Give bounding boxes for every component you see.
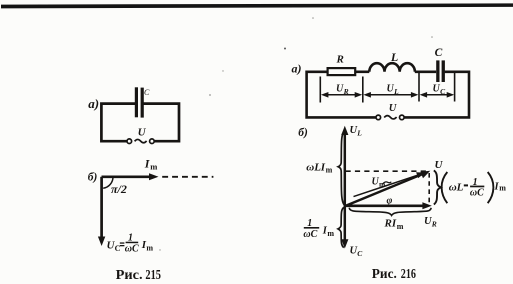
top page rule xyxy=(1,3,513,8)
svg-text:ωC: ωC xyxy=(303,229,317,240)
terminal circle left (fig215 source) xyxy=(127,139,132,144)
resistor R (fig216) xyxy=(328,68,356,75)
phasor RIm arrow (fig216) xyxy=(345,202,432,209)
svg-text:б): б) xyxy=(298,127,308,139)
AC source tilde fig216 xyxy=(384,116,396,119)
dashed vertical from UR tip xyxy=(428,173,430,205)
AC source tilde fig215 xyxy=(135,139,147,142)
svg-text:C: C xyxy=(435,47,443,59)
svg-text:ωC: ωC xyxy=(470,188,484,199)
phasor Um thin arrow xyxy=(354,172,426,196)
svg-text:R: R xyxy=(431,219,437,228)
phasor Im arrow (fig215) xyxy=(102,156,159,180)
svg-text:U: U xyxy=(138,127,147,139)
terminal circle right (fig216 source) xyxy=(400,115,405,120)
brace for 1/wC Im on axis xyxy=(338,208,344,248)
capacitor C (fig216) xyxy=(436,60,445,82)
svg-text:m: m xyxy=(327,229,334,238)
svg-text:216: 216 xyxy=(401,266,416,281)
svg-text:φ: φ xyxy=(387,196,393,207)
svg-text:R: R xyxy=(336,54,344,66)
swash after Um xyxy=(383,182,392,185)
svg-text:ωL: ωL xyxy=(449,182,464,194)
phasor U resultant bold arrow xyxy=(346,171,430,206)
svg-text:m: m xyxy=(379,180,386,189)
wire: fig216 loop xyxy=(307,72,469,118)
dimension tick 3 xyxy=(418,73,420,102)
label RIm xyxy=(384,218,404,231)
UL dimension arrow xyxy=(363,84,418,98)
inductor L (fig216) xyxy=(369,63,415,72)
svg-text:RI: RI xyxy=(384,218,397,230)
svg-text:U: U xyxy=(435,159,444,171)
svg-text:m: m xyxy=(326,166,333,175)
wire: fig215 loop (top/left/right/bottom with gaps) xyxy=(101,104,179,142)
label 1/wC Im xyxy=(303,218,334,240)
svg-text:ωC: ωC xyxy=(125,244,139,255)
svg-text:m: m xyxy=(499,184,506,193)
label wL Im xyxy=(306,162,332,175)
svg-text:m: m xyxy=(397,222,404,231)
svg-text:ωL: ωL xyxy=(306,162,321,174)
dimension tick 4 xyxy=(454,73,456,102)
svg-text:C: C xyxy=(115,244,121,253)
UR dimension arrow xyxy=(321,84,362,98)
svg-text:Рис.: Рис. xyxy=(372,266,397,281)
svg-text:R: R xyxy=(343,87,349,96)
svg-text:C: C xyxy=(144,88,150,97)
phasor Uc arrow down (fig215) xyxy=(98,177,105,246)
svg-text:L: L xyxy=(390,50,398,64)
stray speck xyxy=(284,48,286,50)
terminal circle right (fig215 source) xyxy=(150,139,155,144)
svg-text:Рис.: Рис. xyxy=(116,267,143,282)
UC dimension arrow xyxy=(420,84,455,98)
svg-text:m: m xyxy=(146,244,153,253)
brace for wL Im on axis xyxy=(338,132,344,205)
paper specks xyxy=(159,17,433,251)
svg-text:π/2: π/2 xyxy=(111,182,127,196)
svg-text:m: m xyxy=(150,161,157,171)
angle arc pi/2 xyxy=(103,177,113,188)
svg-text:а): а) xyxy=(88,96,99,111)
svg-text:215: 215 xyxy=(145,267,161,282)
terminal circle left (fig216 source) xyxy=(376,115,381,120)
formula (wL - 1/wC) Im xyxy=(442,172,507,203)
dimension tick 2 xyxy=(362,77,364,103)
svg-text:б): б) xyxy=(88,171,98,183)
svg-text:L: L xyxy=(356,128,362,137)
dashed continuation of Im axis xyxy=(162,176,213,178)
underbrace RIm xyxy=(349,208,431,216)
dimension tick 1 xyxy=(319,77,321,103)
right brace for reactance difference xyxy=(434,170,441,204)
phasor vertical axis UL up / UC down (fig216) xyxy=(341,126,348,249)
capacitor C (fig215, unlabeled plates) xyxy=(135,87,144,117)
dashed horizontal to U tip xyxy=(346,170,427,172)
svg-text:L: L xyxy=(393,87,399,96)
label Uc = 1/wC Im (fig215) xyxy=(107,233,154,255)
svg-text:а): а) xyxy=(292,62,302,76)
